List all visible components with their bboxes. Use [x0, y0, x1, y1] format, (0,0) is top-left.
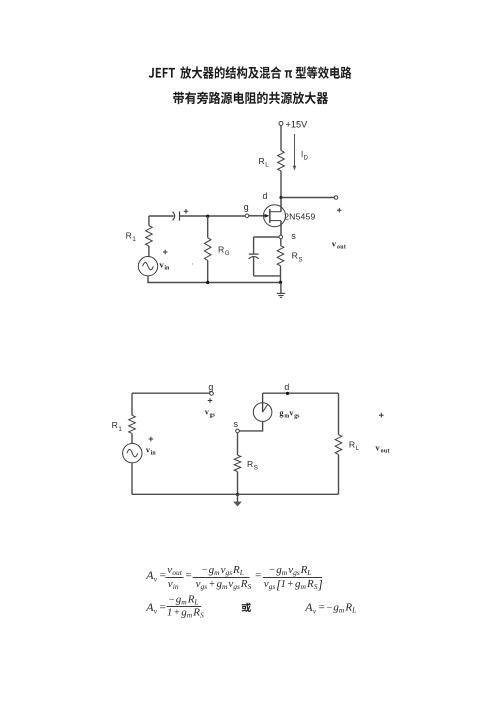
wire: source top to d and right rail	[263, 392, 339, 394]
svg-text:+: +	[209, 579, 216, 590]
gate terminal g	[244, 202, 249, 218]
svg-text:S: S	[298, 256, 302, 263]
svg-text:R: R	[259, 156, 265, 166]
junction: gate node / RG top	[206, 215, 209, 218]
label + vgs	[205, 398, 216, 418]
svg-text:R: R	[292, 251, 298, 261]
resistor RS (source resistor)	[277, 239, 302, 283]
title line 1: JEFT amplifier structure and hybrid-pi equivalent circuit	[149, 66, 352, 79]
bypass capacitor CS	[249, 237, 281, 276]
node d (equivalent circuit)	[284, 382, 289, 395]
node d (drain)	[263, 191, 283, 201]
coupling capacitor C1 (polarized)	[149, 209, 208, 221]
title line 2: common-source amplifier with bypassed source resistor	[173, 91, 328, 104]
junction: bottom rail at RS	[236, 493, 239, 496]
left rail down to R1	[131, 393, 133, 415]
svg-text:−: −	[326, 603, 333, 614]
svg-text:m: m	[339, 606, 345, 615]
svg-text:R: R	[247, 459, 253, 469]
svg-text:L: L	[265, 162, 269, 169]
formula: Av = -gm RL	[304, 600, 356, 616]
svg-text:R: R	[218, 244, 224, 254]
resistor RL (drain load)	[259, 151, 285, 172]
svg-text:m: m	[214, 568, 220, 577]
svg-text:+15V: +15V	[286, 120, 309, 130]
wire: supply to RL	[280, 126, 282, 151]
output terminal vout	[332, 196, 346, 251]
wire: dep source bottom to node s	[239, 421, 262, 431]
svg-text:R: R	[126, 230, 132, 240]
resistor R1 (source resistance)	[126, 216, 153, 257]
svg-text:m: m	[301, 582, 307, 591]
svg-text:R: R	[112, 420, 118, 430]
svg-text:gs: gs	[294, 413, 300, 419]
svg-text:−: −	[168, 595, 175, 606]
wire: top left rail to gate g	[132, 392, 210, 394]
node g (equivalent circuit)	[208, 382, 213, 395]
character: or (或)	[242, 603, 251, 612]
svg-text:gs: gs	[201, 582, 208, 591]
svg-text:gs: gs	[226, 568, 233, 577]
svg-text:g: g	[244, 202, 249, 212]
svg-text:D: D	[304, 156, 309, 162]
svg-text:gs: gs	[233, 582, 240, 591]
svg-text:in: in	[164, 266, 170, 272]
AC source vin	[138, 250, 170, 276]
svg-text:S: S	[200, 610, 204, 619]
speck (scan dot)	[192, 263, 193, 264]
svg-text:L: L	[306, 568, 311, 577]
svg-text:L: L	[356, 445, 360, 452]
ground symbol	[277, 282, 286, 297]
junction: RG bottom on ground rail	[206, 281, 209, 284]
svg-text:−: −	[201, 565, 208, 576]
formula line 2: Av = -gm RL / (1+gm RS)	[145, 594, 204, 620]
wire: coupling cap to gate	[208, 215, 245, 217]
svg-text:S: S	[254, 465, 258, 472]
svg-text:out: out	[172, 568, 183, 577]
AC source vin (equivalent circuit)	[123, 433, 157, 494]
resistor R1 (equivalent circuit)	[112, 415, 136, 433]
svg-text:g: g	[208, 382, 213, 392]
resistor RL (equivalent circuit)	[335, 435, 360, 455]
bottom rail (equivalent circuit)	[132, 493, 339, 495]
svg-text:G: G	[225, 250, 230, 257]
+15V supply terminal	[279, 120, 308, 130]
svg-text:m: m	[181, 598, 187, 607]
svg-text:=: =	[318, 602, 325, 614]
wire: RS bottom to rail	[237, 472, 239, 495]
svg-text:gs: gs	[210, 413, 216, 419]
svg-text:1: 1	[132, 236, 136, 243]
svg-text:out: out	[337, 245, 346, 251]
svg-text:gs: gs	[269, 582, 276, 591]
svg-text:L: L	[239, 568, 244, 577]
svg-text:R: R	[349, 439, 355, 449]
svg-text:m: m	[187, 610, 193, 619]
svg-text:=: =	[159, 602, 166, 614]
svg-text:S: S	[248, 582, 252, 591]
svg-text:=: =	[159, 569, 166, 581]
svg-text:L: L	[351, 606, 356, 615]
svg-text:1: 1	[118, 426, 122, 433]
svg-text:gs: gs	[293, 568, 300, 577]
formula line 1: Av = vout/vin = -gm vgs RL / (vgs + gm vgs RS) = -gm vgs RL / vgs[1+gm RS]	[145, 564, 323, 592]
svg-text:m: m	[222, 582, 228, 591]
svg-text:s: s	[234, 419, 239, 429]
JFET Q1 2N5459	[249, 198, 316, 236]
svg-text:d: d	[263, 191, 268, 201]
junction: RS bottom / ground	[279, 281, 282, 284]
svg-text:1: 1	[281, 578, 287, 590]
node s (equivalent circuit)	[234, 419, 240, 433]
svg-text:in: in	[151, 450, 157, 456]
current arrow ID	[293, 134, 309, 171]
svg-text:+: +	[287, 579, 294, 590]
svg-text:out: out	[381, 449, 390, 455]
svg-text:]: ]	[317, 578, 323, 592]
label + vout (equivalent circuit)	[375, 413, 389, 455]
wire: RL bottom to bottom rail	[338, 454, 340, 494]
svg-text:=: =	[185, 569, 192, 581]
svg-text:d: d	[284, 382, 289, 392]
dependent current source gm*vgs	[253, 393, 300, 421]
resistor RG (gate bias)	[204, 216, 229, 282]
svg-text:=: =	[254, 569, 261, 581]
svg-text:m: m	[282, 568, 288, 577]
wire: vin bottom to ground rail	[148, 276, 281, 283]
svg-text:2N5459: 2N5459	[284, 211, 315, 221]
svg-text:L: L	[193, 598, 198, 607]
wire: drain to output terminal	[281, 197, 334, 199]
svg-text:−: −	[269, 565, 276, 576]
wire: s down to RS	[237, 433, 239, 455]
wire: RL to drain node	[280, 171, 282, 198]
wire: right rail down to RL	[338, 393, 340, 435]
svg-text:in: in	[173, 582, 179, 591]
node s (source)	[279, 231, 296, 241]
svg-text:+: +	[174, 607, 181, 618]
resistor RS (equivalent circuit)	[234, 455, 258, 472]
svg-text:s: s	[291, 231, 296, 241]
ground arrow (equivalent circuit)	[233, 494, 242, 506]
svg-text:1: 1	[167, 606, 173, 618]
